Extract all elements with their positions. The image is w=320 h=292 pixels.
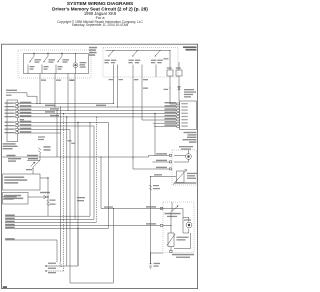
seat assembly dashed box: [163, 202, 194, 253]
bus wires from page 1: [5, 215, 90, 217]
box B output wire: [28, 196, 48, 198]
diagram border frame: [2, 44, 198, 288]
wire col 94: [93, 126, 95, 219]
note above boxA: [8, 158, 21, 159]
wire col 78: [77, 123, 79, 267]
door module feed wire: [6, 90, 17, 91]
wire col 67: [66, 117, 68, 266]
security module box: [3, 193, 28, 205]
set switch feed bus: [106, 50, 171, 52]
module row8 wire: [156, 125, 177, 127]
driver's memory switch pack dashed enclosure: [18, 50, 91, 78]
motor internal wires: [188, 150, 190, 154]
inline connector col150: [149, 185, 152, 190]
page corner mark: [3, 286, 7, 288]
set/resume switches S4-S6: [113, 50, 114, 51]
seat resistor block: [168, 233, 174, 247]
seat box caption: [172, 254, 194, 256]
seat switch blade: [172, 206, 179, 212]
wire from switch pack col 75: [74, 74, 76, 220]
seat box bottom stub: [170, 247, 172, 253]
indicator label: [80, 62, 87, 63]
wire set-switch col 133: [132, 77, 134, 169]
left margin note: [3, 196, 17, 197]
wire from switch pack col 40: [39, 74, 41, 104]
seat feed riser 101: [100, 157, 102, 209]
group2 row2 wire: [19, 125, 94, 127]
group2 row3 wire: [19, 129, 70, 131]
GRA note: [20, 119, 25, 120]
wire set-switch col 117: [117, 77, 119, 107]
bus riser 96 dashed: [96, 117, 98, 222]
coil labels: [167, 67, 172, 68]
driver's seat memory module box: [180, 101, 197, 130]
relay coil box B: [176, 70, 182, 76]
module row2 wire: [19, 106, 177, 108]
row2 color labels mid: [45, 105, 55, 106]
bottom run wire: [70, 282, 114, 284]
memory set switch dashed enclosure: [103, 48, 178, 78]
motor loop: [182, 209, 184, 218]
wire from switch pack col 68: [67, 74, 69, 111]
module row6 wire: [142, 119, 177, 121]
ground G405: [151, 252, 164, 254]
row1 left wire: [19, 103, 114, 105]
motor feed long wire: [2, 156, 148, 158]
sensor wire col 155: [154, 114, 156, 156]
memory set switch note: [184, 89, 194, 90]
row4 color labels mid: [45, 111, 55, 112]
module row3 wire: [19, 109, 177, 111]
wire set-switch col 142: [141, 77, 143, 120]
bottom jumper wire: [46, 265, 78, 267]
memory indicator lamp: [73, 63, 78, 68]
switch pack inner housing box: [24, 54, 89, 74]
wire set-switch col 113: [113, 77, 115, 104]
bottom dashed jumper: [46, 270, 64, 272]
box A output wire: [40, 177, 48, 179]
mid col notes: [38, 136, 45, 137]
lumbar feed wire: [5, 239, 57, 241]
motor row2 wire: [153, 161, 170, 163]
bus labels mid: [77, 197, 85, 198]
motor row3 wire: [133, 168, 169, 170]
memory switch contacts S1-S3: [33, 53, 34, 54]
motor row1 wire: [149, 155, 170, 157]
wire relay B down: [178, 76, 180, 101]
module row4 wire: [19, 113, 177, 115]
group2 row1 wire: [19, 122, 109, 124]
wire col 70: [69, 130, 71, 284]
col48 wire with connector: [47, 178, 49, 216]
motor box caption: [174, 182, 196, 183]
group2 row4 wire: [19, 132, 61, 134]
module caption: [184, 132, 197, 133]
inline connector on col40: [39, 103, 40, 104]
sensor feed wire: [151, 176, 177, 178]
wire from switch pack col 55: [54, 74, 56, 108]
position sensor: [177, 171, 185, 183]
driver's door module box: [3, 174, 40, 190]
seat switch to resistor wire: [170, 212, 172, 234]
motor box pin rows: [169, 154, 171, 156]
relay coil box A: [167, 70, 173, 76]
wire relay A down: [169, 76, 171, 104]
driver's door switch connector box: [7, 100, 18, 142]
corner title text: [183, 46, 197, 48]
door module connector caption: [3, 143, 16, 144]
module row7 wire: [153, 122, 177, 124]
recline motor dashed box: [172, 150, 197, 185]
switch pack name label: [89, 47, 97, 49]
bus drop 113: [113, 209, 115, 284]
seat row wires: [160, 208, 183, 210]
module row1 wire: [170, 103, 177, 105]
seat motor: [186, 222, 192, 228]
motor return wire: [190, 233, 192, 249]
wire col 90: [89, 123, 91, 217]
seat ground feed row: [160, 224, 162, 226]
svg-text:Saturday, September 11, 2004: Saturday, September 11, 2004 10:47AM: [72, 23, 129, 27]
wire col 63 dashed: [63, 114, 65, 271]
recline motor: [186, 154, 192, 160]
connector pin rows: [16, 102, 18, 104]
wire col 57: [56, 110, 58, 157]
seat switch feed row: [101, 208, 160, 210]
bottom connector labels: [48, 263, 56, 264]
ground wire col 150: [150, 177, 152, 263]
wire col 60: [60, 107, 62, 263]
module row5 wire: [19, 116, 177, 118]
module pin rows: [177, 103, 179, 105]
drop 108: [108, 123, 110, 229]
